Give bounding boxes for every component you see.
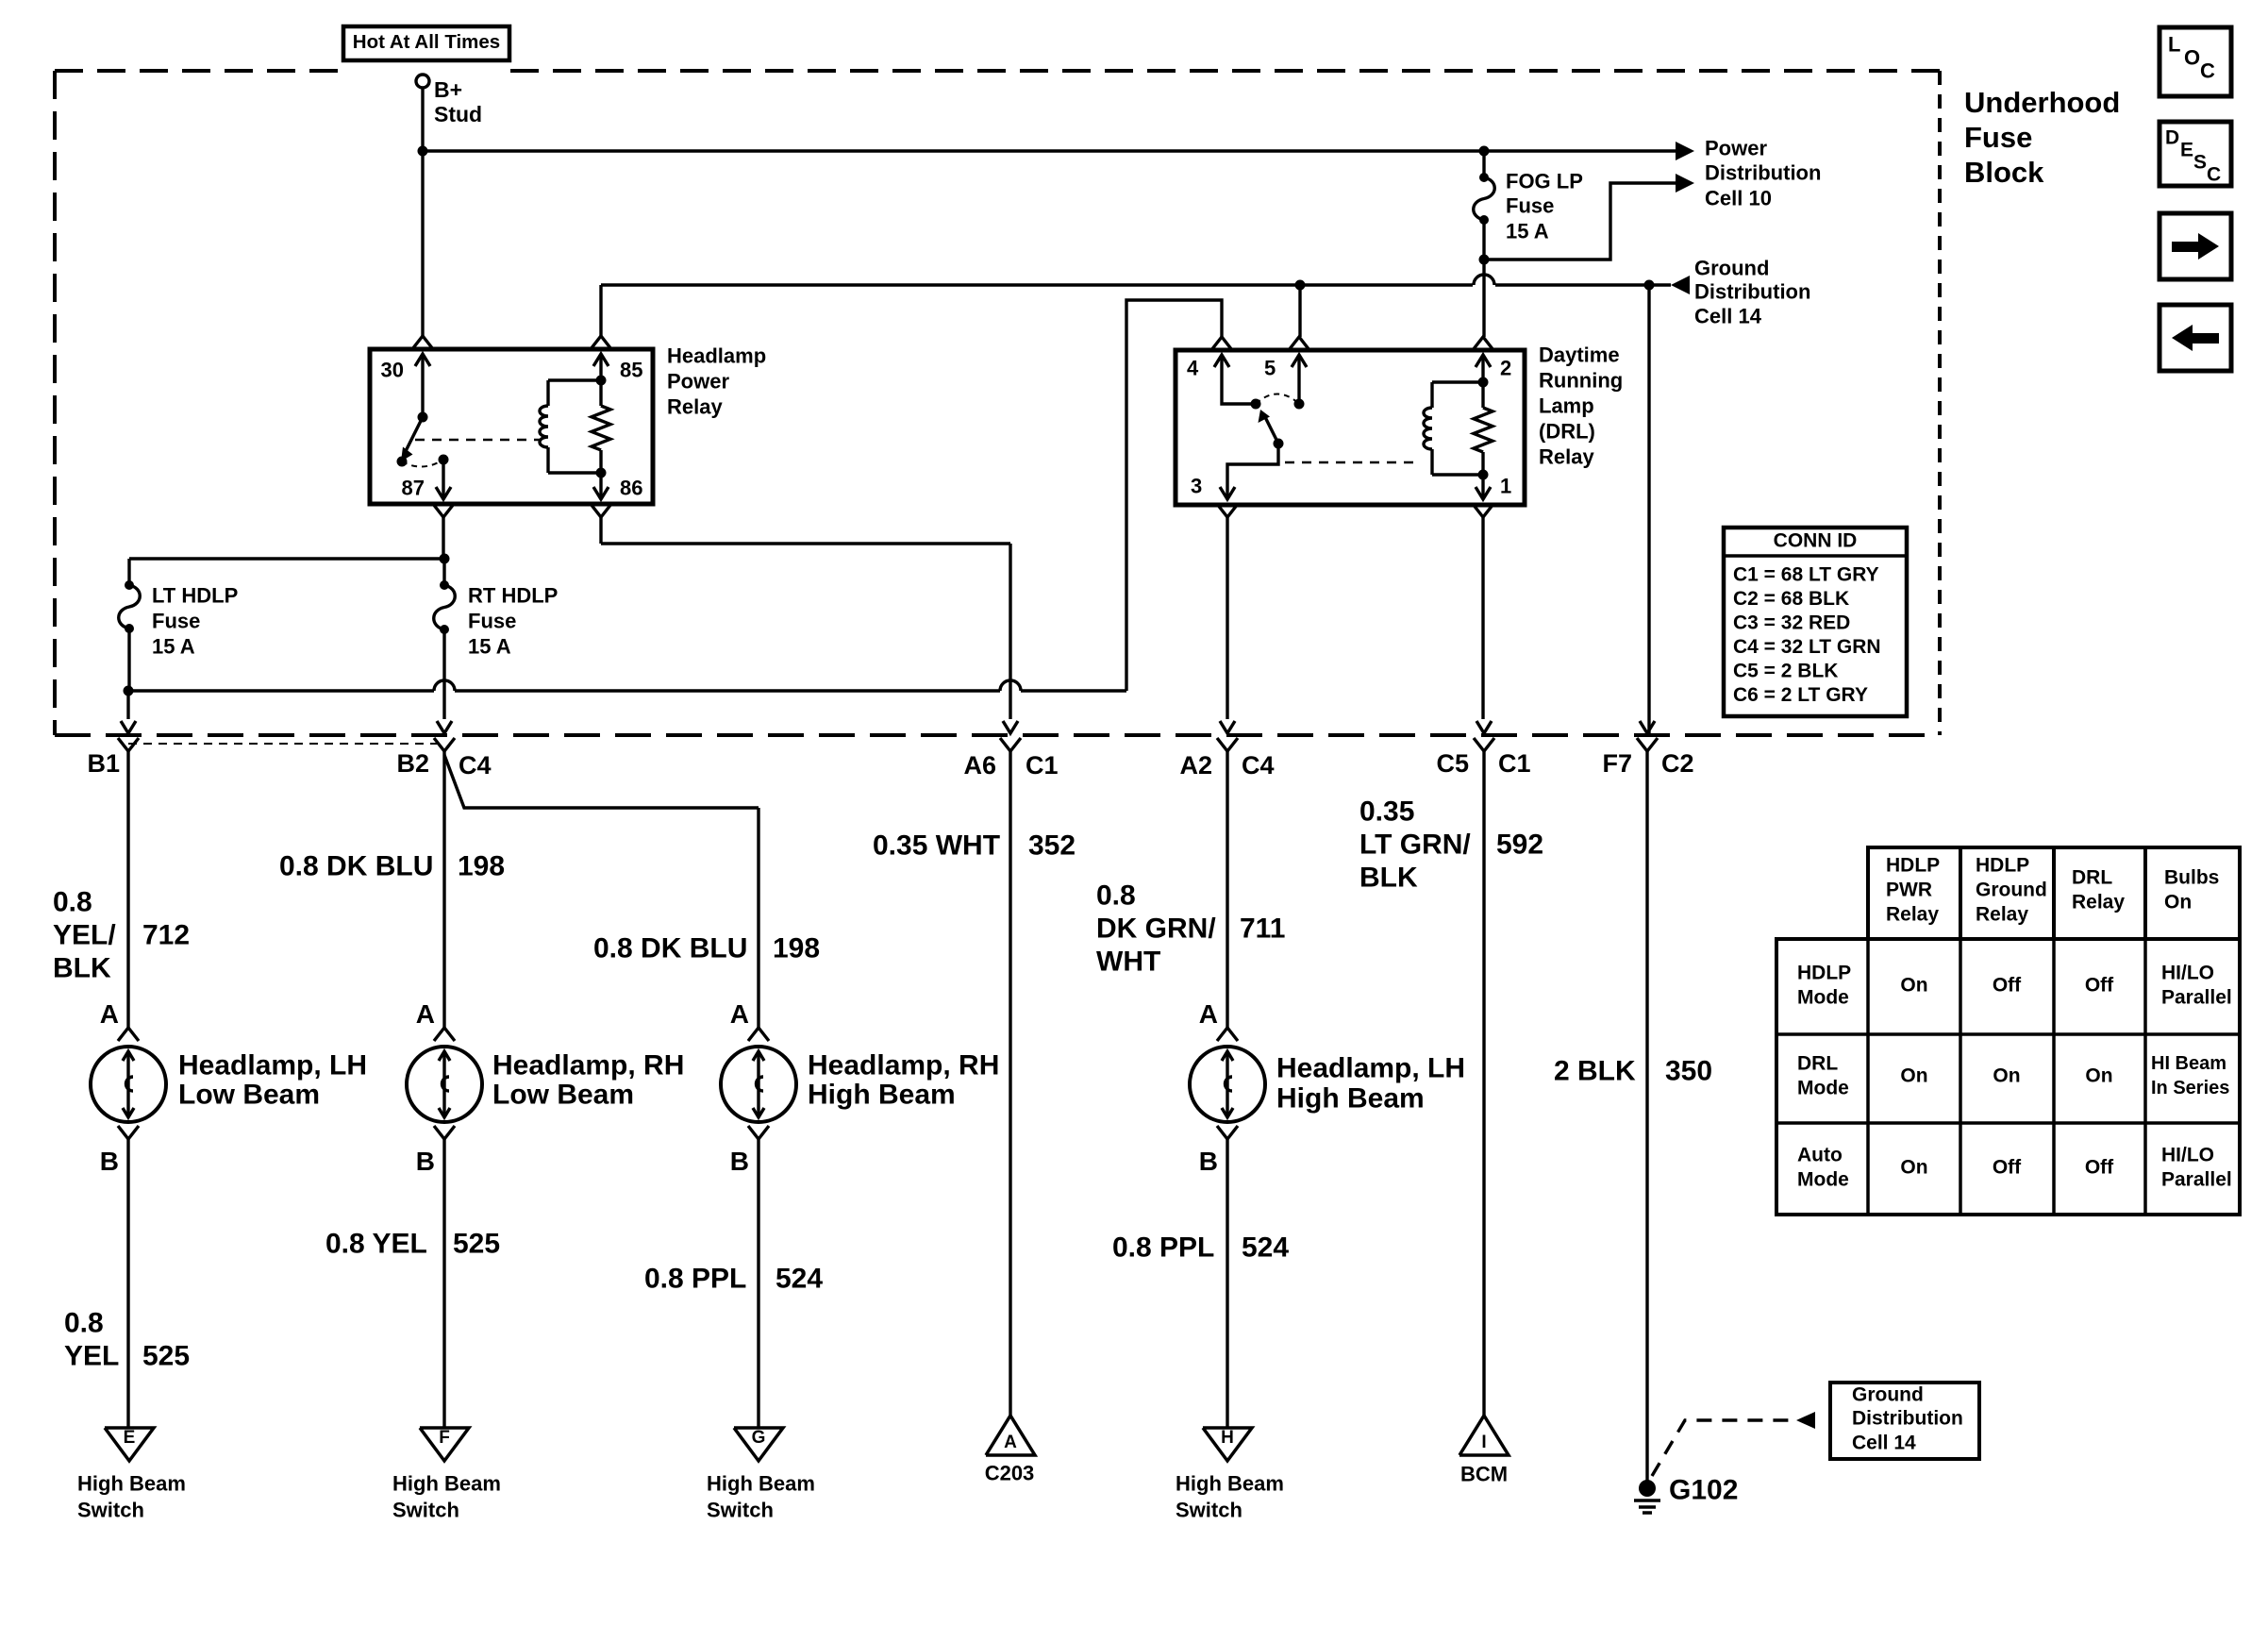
svg-text:Off: Off [2085, 974, 2114, 996]
svg-text:0.35: 0.35 [1359, 796, 1414, 828]
svg-text:HDLP: HDLP [1886, 854, 1940, 876]
svg-text:87: 87 [402, 477, 425, 500]
svg-text:Switch: Switch [392, 1499, 459, 1522]
svg-text:Ground: Ground [1976, 879, 2047, 900]
svg-text:DRL: DRL [2072, 866, 2112, 888]
svg-text:C2 = 68 BLK: C2 = 68 BLK [1733, 588, 1849, 610]
svg-text:0.8 PPL: 0.8 PPL [644, 1264, 746, 1295]
svg-text:C1: C1 [1498, 749, 1531, 778]
svg-text:C4 = 32 LT GRN: C4 = 32 LT GRN [1733, 636, 1881, 658]
svg-text:O: O [2184, 46, 2200, 70]
svg-text:C: C [2207, 163, 2221, 185]
svg-text:A: A [730, 999, 749, 1029]
svg-text:Block: Block [1964, 156, 2044, 189]
svg-text:H: H [1221, 1428, 1234, 1448]
svg-text:Mode: Mode [1797, 986, 1849, 1008]
svg-text:A2: A2 [1179, 751, 1212, 779]
svg-text:C203: C203 [985, 1462, 1035, 1485]
svg-text:B+: B+ [434, 77, 462, 102]
svg-text:C5: C5 [1436, 749, 1469, 778]
svg-text:C6 = 2 LT GRY: C6 = 2 LT GRY [1733, 684, 1868, 706]
svg-text:DRL: DRL [1797, 1052, 1838, 1074]
svg-text:CONN ID: CONN ID [1774, 529, 1858, 551]
svg-text:High Beam: High Beam [808, 1080, 956, 1111]
svg-text:B: B [416, 1147, 435, 1176]
svg-text:On: On [1900, 974, 1927, 996]
svg-text:F: F [439, 1428, 450, 1448]
svg-text:0.8: 0.8 [53, 887, 92, 918]
svg-text:On: On [1900, 1064, 1927, 1086]
svg-text:Running: Running [1539, 369, 1623, 393]
svg-text:Relay: Relay [667, 395, 723, 419]
svg-text:B: B [1199, 1147, 1218, 1176]
svg-text:On: On [2164, 891, 2192, 913]
svg-text:1: 1 [1500, 475, 1511, 498]
svg-text:0.8 YEL: 0.8 YEL [325, 1229, 427, 1260]
svg-text:High Beam: High Beam [392, 1472, 501, 1496]
svg-text:High Beam: High Beam [707, 1472, 815, 1496]
svg-text:Fuse: Fuse [1964, 121, 2032, 154]
svg-text:HI Beam: HI Beam [2151, 1053, 2226, 1074]
svg-text:Low Beam: Low Beam [492, 1080, 634, 1111]
svg-text:Headlamp: Headlamp [667, 344, 766, 368]
svg-text:Headlamp, LH: Headlamp, LH [1276, 1053, 1465, 1084]
svg-text:Cell 10: Cell 10 [1705, 187, 1772, 210]
svg-text:525: 525 [142, 1341, 190, 1372]
svg-text:Ground: Ground [1852, 1383, 1924, 1405]
svg-text:352: 352 [1028, 830, 1076, 862]
svg-text:C4: C4 [459, 751, 492, 779]
svg-text:HI/LO: HI/LO [2161, 962, 2214, 983]
svg-text:C4: C4 [1242, 751, 1275, 779]
svg-text:Cell 14: Cell 14 [1694, 305, 1762, 328]
svg-text:BCM: BCM [1460, 1463, 1508, 1486]
svg-text:Fuse: Fuse [468, 610, 516, 633]
svg-text:Relay: Relay [2072, 891, 2125, 913]
svg-text:On: On [1993, 1064, 2020, 1086]
svg-text:LT GRN/: LT GRN/ [1359, 830, 1471, 861]
svg-text:86: 86 [620, 477, 642, 500]
svg-text:711: 711 [1240, 914, 1285, 945]
svg-text:C: C [2200, 59, 2215, 83]
svg-text:Bulbs: Bulbs [2164, 866, 2219, 888]
svg-text:PWR: PWR [1886, 879, 1932, 900]
svg-text:Auto: Auto [1797, 1144, 1843, 1165]
svg-text:Headlamp, RH: Headlamp, RH [492, 1050, 684, 1081]
svg-text:Underhood: Underhood [1964, 86, 2120, 119]
svg-text:G102: G102 [1669, 1475, 1738, 1506]
svg-text:High Beam: High Beam [1176, 1472, 1284, 1496]
svg-text:Distribution: Distribution [1694, 280, 1810, 304]
svg-text:0.8: 0.8 [1096, 880, 1136, 912]
svg-text:0.35 WHT: 0.35 WHT [873, 830, 1000, 862]
svg-text:A: A [1004, 1433, 1017, 1452]
svg-text:C3 = 32 RED: C3 = 32 RED [1733, 612, 1850, 633]
svg-text:198: 198 [773, 933, 820, 964]
svg-text:DK GRN/: DK GRN/ [1096, 914, 1216, 945]
svg-text:Relay: Relay [1976, 903, 2028, 925]
svg-text:BLK: BLK [53, 953, 111, 984]
svg-text:Parallel: Parallel [2161, 1168, 2232, 1190]
svg-text:Low Beam: Low Beam [178, 1080, 320, 1111]
svg-text:85: 85 [620, 359, 642, 382]
svg-text:Relay: Relay [1539, 445, 1594, 469]
svg-text:524: 524 [775, 1264, 823, 1295]
svg-text:HDLP: HDLP [1976, 854, 2029, 876]
svg-text:Stud: Stud [434, 102, 482, 126]
svg-text:Off: Off [1993, 1156, 2022, 1178]
svg-text:2 BLK: 2 BLK [1554, 1056, 1636, 1087]
svg-text:15 A: 15 A [152, 635, 195, 659]
svg-text:A: A [100, 999, 119, 1029]
svg-text:Parallel: Parallel [2161, 986, 2232, 1008]
svg-text:Cell 14: Cell 14 [1852, 1432, 1916, 1453]
svg-text:FOG LP: FOG LP [1506, 170, 1583, 193]
svg-text:Switch: Switch [77, 1499, 144, 1522]
svg-text:In Series: In Series [2151, 1078, 2229, 1098]
svg-text:D: D [2165, 126, 2179, 148]
svg-text:B: B [100, 1147, 119, 1176]
svg-text:LT HDLP: LT HDLP [152, 584, 238, 608]
svg-text:(DRL): (DRL) [1539, 420, 1595, 444]
svg-text:L: L [2168, 33, 2180, 57]
svg-text:C1: C1 [1026, 751, 1059, 779]
svg-text:RT HDLP: RT HDLP [468, 584, 558, 608]
svg-text:A: A [416, 999, 435, 1029]
svg-text:I: I [1481, 1433, 1486, 1452]
svg-text:Distribution: Distribution [1705, 161, 1821, 185]
svg-text:High Beam: High Beam [77, 1472, 186, 1496]
svg-text:Ground: Ground [1694, 257, 1769, 280]
svg-text:Switch: Switch [1176, 1499, 1242, 1522]
svg-text:3: 3 [1191, 475, 1202, 498]
svg-text:2: 2 [1500, 357, 1511, 380]
svg-text:Power: Power [667, 370, 729, 394]
svg-text:592: 592 [1496, 830, 1543, 861]
svg-text:C1 = 68 LT GRY: C1 = 68 LT GRY [1733, 563, 1879, 585]
svg-text:YEL: YEL [64, 1341, 119, 1372]
svg-text:Switch: Switch [707, 1499, 774, 1522]
svg-text:C5 = 2 BLK: C5 = 2 BLK [1733, 660, 1838, 681]
svg-text:198: 198 [458, 851, 505, 882]
svg-text:Hot At All Times: Hot At All Times [353, 31, 500, 53]
svg-text:BLK: BLK [1359, 863, 1418, 894]
svg-text:Fuse: Fuse [152, 610, 200, 633]
svg-text:Lamp: Lamp [1539, 394, 1594, 418]
svg-text:0.8 DK BLU: 0.8 DK BLU [279, 851, 433, 882]
svg-text:E: E [124, 1428, 136, 1448]
svg-text:Power: Power [1705, 137, 1767, 160]
svg-text:525: 525 [453, 1229, 500, 1260]
svg-text:0.8 DK BLU: 0.8 DK BLU [593, 933, 747, 964]
svg-text:15 A: 15 A [468, 635, 511, 659]
svg-text:E: E [2180, 139, 2193, 160]
svg-text:350: 350 [1665, 1056, 1712, 1087]
svg-text:S: S [2193, 151, 2207, 173]
svg-text:A6: A6 [963, 751, 996, 779]
svg-text:B: B [730, 1147, 749, 1176]
svg-text:B1: B1 [87, 749, 120, 778]
svg-text:YEL/: YEL/ [53, 920, 116, 951]
svg-text:HI/LO: HI/LO [2161, 1144, 2214, 1165]
svg-text:WHT: WHT [1096, 947, 1160, 978]
svg-text:G: G [752, 1428, 766, 1448]
svg-text:Fuse: Fuse [1506, 194, 1554, 218]
svg-text:Mode: Mode [1797, 1168, 1849, 1190]
svg-text:15 A: 15 A [1506, 220, 1549, 243]
svg-text:F7: F7 [1602, 749, 1632, 778]
svg-text:524: 524 [1242, 1232, 1289, 1264]
svg-text:0.8: 0.8 [64, 1308, 104, 1339]
svg-text:0.8 PPL: 0.8 PPL [1112, 1232, 1214, 1264]
svg-text:Relay: Relay [1886, 903, 1939, 925]
svg-text:High Beam: High Beam [1276, 1083, 1425, 1115]
svg-text:Headlamp, LH: Headlamp, LH [178, 1050, 367, 1081]
svg-text:Mode: Mode [1797, 1077, 1849, 1098]
svg-text:A: A [1199, 999, 1218, 1029]
svg-text:30: 30 [381, 359, 404, 382]
svg-text:C2: C2 [1661, 749, 1694, 778]
svg-text:5: 5 [1264, 357, 1276, 380]
svg-text:HDLP: HDLP [1797, 962, 1851, 983]
svg-text:Distribution: Distribution [1852, 1407, 1963, 1429]
svg-text:Headlamp, RH: Headlamp, RH [808, 1050, 999, 1081]
svg-text:Off: Off [1993, 974, 2022, 996]
svg-text:Off: Off [2085, 1156, 2114, 1178]
svg-text:On: On [1900, 1156, 1927, 1178]
svg-text:On: On [2085, 1064, 2112, 1086]
svg-text:B2: B2 [396, 749, 429, 778]
svg-text:4: 4 [1187, 357, 1199, 380]
svg-text:712: 712 [142, 920, 190, 951]
svg-text:Daytime: Daytime [1539, 344, 1620, 367]
